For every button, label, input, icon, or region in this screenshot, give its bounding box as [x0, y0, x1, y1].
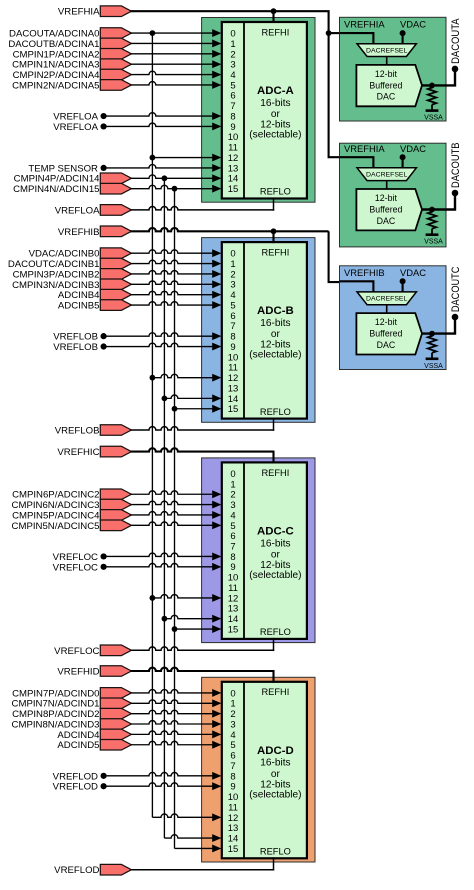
svg-text:13: 13 [228, 823, 239, 834]
ground VSSA (DAC-C) [424, 353, 443, 370]
wire VREFLOD ch8 to channel arrow [104, 772, 222, 780]
pin VREFLOB (REFLO) [55, 425, 132, 437]
svg-text:DACOUTB: DACOUTB [450, 143, 462, 189]
svg-text:DAC: DAC [377, 340, 396, 350]
pin CMPIN3P/ADCINB2 [13, 269, 132, 281]
svg-text:DACOUTB/ADCINA1: DACOUTB/ADCINA1 [8, 39, 99, 50]
node VDAC label (DAC-B) [400, 143, 426, 154]
ground VSSA (DAC-B) [424, 229, 443, 246]
DAC core 12-bit Buffered DAC (DAC-C) [356, 313, 422, 354]
pin ADCINB4 [58, 289, 131, 301]
svg-text:3: 3 [230, 280, 235, 291]
wire ADCIND5 to channel arrow [130, 741, 221, 749]
ADC-D name and description [249, 745, 301, 801]
svg-text:12-bit: 12-bit [375, 193, 398, 203]
svg-text:VREFLOD: VREFLOD [53, 782, 98, 793]
svg-text:CMPIN5P/ADCINC4: CMPIN5P/ADCINC4 [12, 510, 100, 521]
ADC-D inner box [222, 682, 307, 859]
pin CMPIN8N/ADCIND3 [12, 719, 132, 731]
svg-text:7: 7 [230, 101, 235, 112]
terminal VREFLOB ch9 [53, 342, 106, 353]
svg-text:4: 4 [230, 730, 235, 741]
pin CMPIN7N/ADCIND1 [12, 698, 132, 710]
pin CMPIN1P/ADCINA2 [13, 49, 132, 61]
svg-text:10: 10 [228, 132, 239, 143]
wire VREFLOB to ADC-B REFLO [130, 418, 274, 431]
svg-text:14: 14 [228, 174, 239, 185]
svg-text:11: 11 [228, 143, 238, 154]
wire CMPIN3P/ADCINB2 to channel arrow [130, 270, 221, 278]
svg-text:CMPIN8P/ADCIND2: CMPIN8P/ADCIND2 [12, 709, 99, 720]
svg-text:REFHI: REFHI [261, 248, 289, 258]
wire VREFLOA ch9 to channel arrow [104, 122, 222, 130]
svg-text:VDAC: VDAC [400, 19, 426, 30]
svg-text:9: 9 [230, 122, 235, 133]
DAC-B block [340, 143, 447, 247]
svg-text:7: 7 [230, 321, 235, 332]
svg-text:DACOUTC/ADCINB1: DACOUTC/ADCINB1 [8, 259, 100, 270]
svg-text:VREFLOD: VREFLOD [53, 771, 98, 782]
ADC-C inner box [222, 462, 307, 639]
wire VREFLOB ch9 to channel arrow [104, 343, 222, 351]
svg-text:10: 10 [228, 792, 239, 803]
svg-text:CMPIN1P/ADCINA2: CMPIN1P/ADCINA2 [13, 49, 100, 60]
svg-text:9: 9 [230, 782, 235, 793]
wire CMPIN7P/ADCIND0 to channel arrow [130, 689, 221, 697]
svg-text:CMPIN6P/ADCINC2: CMPIN6P/ADCINC2 [12, 490, 99, 501]
ADC-B channel numbers 0-15 [228, 249, 239, 416]
svg-text:7: 7 [230, 542, 235, 553]
svg-text:15: 15 [228, 404, 239, 415]
terminal VREFLOA ch9 [53, 122, 106, 133]
svg-text:Buffered: Buffered [369, 329, 402, 339]
svg-text:16-bits: 16-bits [260, 98, 290, 109]
junction DACOUTA/ADCINA0 bus tap [150, 30, 156, 36]
svg-text:0: 0 [230, 469, 235, 480]
wire VREFHIB net (to ADC-B REFHI and DAC-C) [130, 228, 328, 231]
terminal TEMP SENSOR [28, 163, 106, 174]
svg-text:14: 14 [228, 394, 239, 405]
wire ADCD ch15 from bus [175, 845, 222, 853]
svg-text:CMPIN3P/ADCINB2: CMPIN3P/ADCINB2 [13, 269, 100, 280]
svg-text:VREFLOC: VREFLOC [54, 646, 99, 657]
terminal VREFLOA ch8 [53, 112, 106, 123]
mux DACREFSEL (DAC-A) [357, 44, 416, 57]
svg-text:3: 3 [230, 719, 235, 730]
wire DACOUTC/ADCINB1 to channel arrow [130, 260, 221, 268]
ADC-A inner box [222, 22, 307, 199]
svg-text:12-bit: 12-bit [375, 317, 398, 327]
svg-text:13: 13 [228, 604, 239, 615]
pin ADCIND4 [57, 729, 131, 741]
ADC-B inner box [222, 242, 307, 419]
wire VREFLOA to ADC-A REFLO [130, 198, 274, 211]
svg-text:1: 1 [230, 479, 235, 490]
terminal VDAC (DAC-C) [400, 278, 406, 292]
terminal VREFLOC ch9 [53, 562, 107, 573]
svg-text:16-bits: 16-bits [260, 538, 290, 549]
terminal VDAC (DAC-A) [400, 30, 406, 44]
svg-text:VREFHID: VREFHID [57, 667, 99, 678]
svg-text:15: 15 [228, 184, 239, 195]
svg-text:VREFHIA: VREFHIA [58, 7, 100, 18]
svg-text:11: 11 [228, 802, 238, 813]
svg-text:VREFLOC: VREFLOC [53, 552, 98, 563]
svg-text:VDAC: VDAC [400, 267, 426, 278]
pin VREFHIB [58, 226, 131, 238]
svg-text:REFLO: REFLO [260, 847, 291, 857]
junction DAC output node (DAC-C) [429, 331, 435, 337]
svg-text:6: 6 [230, 751, 235, 762]
wire DAC output to DACOUTA [422, 69, 455, 86]
svg-text:ADCINB4: ADCINB4 [58, 290, 100, 301]
svg-text:VREFLOA: VREFLOA [53, 112, 98, 123]
pin DACOUTB/ADCINA1 [8, 38, 131, 50]
svg-text:DACREFSEL: DACREFSEL [366, 172, 408, 179]
svg-text:6: 6 [230, 311, 235, 322]
ADC-D REFLO label [260, 847, 291, 857]
svg-text:4: 4 [230, 70, 235, 81]
terminal VREFLOD ch9 [53, 782, 107, 793]
wire DAC output to DACOUTC [422, 317, 455, 334]
svg-text:CMPIN2P/ADCINA4: CMPIN2P/ADCINA4 [13, 70, 101, 81]
wire CMPIN8N/ADCIND3 to channel arrow [130, 720, 221, 728]
svg-text:VREFHIC: VREFHIC [57, 447, 99, 458]
pin CMPIN4P/ADCIN14 [14, 173, 132, 185]
svg-text:VSSA: VSSA [424, 115, 443, 122]
wire DAC output to DACOUTB [422, 193, 455, 210]
svg-text:or: or [271, 329, 281, 340]
svg-text:11: 11 [228, 363, 238, 374]
pin CMPIN7P/ADCIND0 [12, 688, 131, 700]
wire VREFLOB ch8 to channel arrow [104, 332, 222, 340]
svg-text:(selectable): (selectable) [249, 570, 301, 581]
svg-text:CMPIN2N/ADCINA5: CMPIN2N/ADCINA5 [12, 80, 99, 91]
svg-text:CMPIN4N/ADCIN15: CMPIN4N/ADCIN15 [13, 184, 99, 195]
svg-text:or: or [271, 549, 281, 560]
svg-text:16-bits: 16-bits [260, 318, 290, 329]
svg-text:ADC-B: ADC-B [257, 305, 294, 317]
node DACOUTA terminal [450, 18, 462, 72]
node VDAC label (DAC-C) [400, 267, 426, 278]
ADC-B REFHI label [261, 248, 289, 258]
svg-text:6: 6 [230, 531, 235, 542]
pin CMPIN4N/ADCIN15 [13, 183, 131, 195]
wire CMPIN5N/ADCINC5 to channel arrow [130, 521, 221, 529]
ADC-C channel numbers 0-15 [228, 469, 239, 636]
pin CMPIN5P/ADCINC4 [12, 510, 131, 522]
wire ADCD ch14 from bus [164, 834, 221, 842]
svg-text:REFLO: REFLO [260, 627, 291, 637]
terminal VDAC (DAC-B) [400, 154, 406, 168]
pin CMPIN6N/ADCINC3 [12, 499, 132, 511]
svg-text:(selectable): (selectable) [249, 789, 301, 800]
svg-text:ADC-C: ADC-C [257, 525, 294, 537]
wire ADCC ch15 from bus [172, 625, 222, 633]
ADC-A REFHI label [261, 27, 289, 37]
pin ADCIND5 [57, 739, 131, 751]
svg-text:ADC-D: ADC-D [257, 745, 294, 757]
wire VREFLOC ch8 to channel arrow [104, 553, 222, 561]
svg-text:CMPIN7N/ADCIND1: CMPIN7N/ADCIND1 [12, 699, 100, 710]
wire VREFHIA into DACREFSEL mux [340, 33, 374, 44]
ADC-C REFHI label [261, 468, 289, 478]
wire CMPIN6N/ADCINC3 to channel arrow [130, 501, 221, 509]
ADC-C name and description [249, 525, 301, 581]
wire ADCB ch15 from bus [172, 405, 222, 413]
svg-text:ADC-A: ADC-A [257, 85, 294, 97]
svg-text:DAC: DAC [377, 216, 396, 226]
ADC-A channel numbers 0-15 [228, 29, 239, 196]
svg-text:DACREFSEL: DACREFSEL [366, 48, 408, 55]
svg-text:4: 4 [230, 290, 235, 301]
wire CMPIN3N/ADCINB3 to channel arrow [130, 280, 221, 288]
svg-text:Buffered: Buffered [369, 81, 402, 91]
ADC-D outer block [202, 677, 315, 862]
wire mux output to DAC core [386, 57, 388, 65]
wire CMPIN6P/ADCINC2 to channel arrow [130, 490, 221, 498]
pin CMPIN8P/ADCIND2 [12, 708, 131, 720]
svg-text:10: 10 [228, 573, 239, 584]
wire ADCB ch12 from bus [150, 374, 222, 382]
wire mux output to DAC core [386, 181, 388, 189]
svg-text:VREFLOA: VREFLOA [53, 122, 98, 133]
junction CMPIN4N/ADCIN15 bus tap [172, 186, 178, 192]
wire DACOUTB/ADCINA1 to channel arrow [130, 40, 221, 48]
wire CMPIN8P/ADCIND2 to channel arrow [130, 710, 221, 718]
svg-text:VREFHIB: VREFHIB [344, 267, 385, 278]
svg-text:9: 9 [230, 342, 235, 353]
bus CMPIN4N/ADCIN15 to ch15 (vertical) [174, 189, 176, 849]
node DACOUTC terminal [450, 267, 462, 321]
wire TEMP SENSOR to channel arrow [104, 164, 222, 172]
svg-text:6: 6 [230, 91, 235, 102]
node VREFHIB label (DAC-C) [344, 267, 385, 278]
terminal VREFLOB ch8 [53, 332, 106, 343]
svg-text:REFHI: REFHI [261, 27, 289, 37]
svg-text:0: 0 [230, 249, 235, 260]
wire ADCINB4 to channel arrow [130, 291, 221, 299]
wire REFHI stub ADC-A [271, 8, 277, 23]
svg-text:13: 13 [228, 163, 239, 174]
node VDAC label (DAC-A) [400, 19, 426, 30]
svg-text:VREFLOC: VREFLOC [53, 562, 98, 573]
svg-text:ADCINB5: ADCINB5 [58, 301, 100, 312]
svg-text:1: 1 [230, 699, 235, 710]
wire REFHI stub ADC-B [271, 228, 277, 243]
svg-text:11: 11 [228, 583, 238, 594]
pin VREFHID [57, 666, 131, 678]
svg-text:DACOUTC: DACOUTC [450, 267, 462, 313]
svg-text:3: 3 [230, 60, 235, 71]
mux DACREFSEL (DAC-B) [357, 168, 416, 181]
ADC-B REFLO label [260, 407, 291, 417]
wire VREFHID to ADC-D REFHI [130, 668, 273, 683]
terminal VREFLOC ch8 [53, 552, 107, 563]
svg-text:(selectable): (selectable) [249, 350, 301, 361]
ADC-D channel numbers 0-15 [228, 688, 239, 855]
node VREFHIA label (DAC-A) [344, 19, 385, 30]
node DACOUTB terminal [450, 143, 462, 197]
svg-text:0: 0 [230, 29, 235, 40]
wire VREFHIB drop to DAC-C [329, 231, 342, 282]
svg-text:14: 14 [228, 834, 239, 845]
wire VREFLOC ch9 to channel arrow [104, 563, 222, 571]
svg-text:VREFLOB: VREFLOB [53, 342, 98, 353]
wire VREFHIA into DACREFSEL mux [340, 157, 374, 168]
wire VREFHIC to ADC-C REFHI [130, 448, 273, 463]
wire VREFLOD to ADC-D REFLO [130, 857, 274, 870]
svg-text:16-bits: 16-bits [260, 758, 290, 769]
junction CMPIN4P/ADCIN14 bus tap [162, 175, 168, 181]
pin CMPIN1N/ADCINA3 [12, 59, 131, 71]
wire ADCC ch14 from bus [162, 615, 222, 623]
svg-text:VSSA: VSSA [424, 363, 443, 370]
svg-text:15: 15 [228, 625, 239, 636]
junction DAC output node (DAC-B) [429, 207, 435, 213]
svg-text:CMPIN5N/ADCINC5: CMPIN5N/ADCINC5 [12, 521, 100, 532]
svg-text:REFHI: REFHI [261, 468, 289, 478]
wire ADCA ch12 from bus [150, 154, 222, 162]
pin CMPIN2P/ADCINA4 [13, 69, 132, 81]
wire VREFHIA net (top rail to DAC-A/B) [130, 11, 341, 157]
wire ADCIND4 to channel arrow [130, 730, 221, 738]
svg-text:ADCIND4: ADCIND4 [57, 730, 100, 741]
wire VREFHIB into DACREFSEL mux [340, 281, 374, 292]
DAC-A block [340, 17, 447, 121]
pin VREFLOD (REFLO) [54, 864, 131, 876]
wire CMPIN1N/ADCINA3 to channel arrow [130, 60, 221, 68]
svg-text:VDAC: VDAC [400, 143, 426, 154]
svg-text:13: 13 [228, 383, 239, 394]
svg-text:REFLO: REFLO [260, 407, 291, 417]
ground VSSA (DAC-A) [424, 105, 443, 122]
pin VREFHIA [58, 6, 131, 18]
svg-text:VSSA: VSSA [424, 239, 443, 246]
wire CMPIN2P/ADCINA4 to channel arrow [130, 71, 221, 79]
wire mux output to DAC core [386, 305, 388, 313]
ADC-B name and description [249, 305, 301, 361]
svg-text:0: 0 [230, 688, 235, 699]
wire CMPIN4P/ADCIN14 to channel arrow [130, 174, 221, 182]
wire ADCD ch12 from bus [152, 813, 221, 821]
svg-text:12-bit: 12-bit [375, 69, 398, 79]
svg-text:DACREFSEL: DACREFSEL [366, 296, 408, 303]
wire CMPIN1P/ADCINA2 to channel arrow [130, 50, 221, 58]
wire VREFLOD ch9 to channel arrow [104, 782, 222, 790]
DAC core 12-bit Buffered DAC (DAC-B) [356, 189, 422, 230]
wire CMPIN2N/ADCINA5 to channel arrow [130, 81, 221, 89]
svg-text:10: 10 [228, 352, 239, 363]
svg-text:REFLO: REFLO [260, 187, 291, 197]
mux DACREFSEL (DAC-C) [357, 292, 416, 305]
svg-text:14: 14 [228, 614, 239, 625]
wire VREFLOA ch8 to channel arrow [104, 112, 222, 120]
DAC-C block [340, 266, 447, 370]
pin DACOUTC/ADCINB1 [8, 258, 132, 270]
svg-text:or: or [271, 109, 281, 120]
wire VREFHIA branch into DAC-A [326, 30, 342, 36]
svg-text:(selectable): (selectable) [249, 130, 301, 141]
DAC core 12-bit Buffered DAC (DAC-A) [356, 65, 422, 106]
wire VDAC/ADCINB0 to channel arrow [130, 249, 221, 257]
svg-text:7: 7 [230, 761, 235, 772]
pin VREFLOA (REFLO) [55, 205, 132, 217]
ADC-A name and description [249, 85, 301, 141]
ADC-A REFLO label [260, 187, 291, 197]
svg-text:VREFLOA: VREFLOA [55, 205, 100, 216]
pin CMPIN2N/ADCINA5 [12, 80, 131, 92]
wire CMPIN5P/ADCINC4 to channel arrow [130, 511, 221, 519]
ADC-D REFHI label [261, 687, 289, 697]
svg-text:REFHI: REFHI [261, 687, 289, 697]
pin VREFLOC (REFLO) [54, 645, 131, 657]
ADC-A outer block [202, 18, 315, 203]
wire ADCB ch14 from bus [162, 394, 222, 402]
pin DACOUTA/ADCINA0 [9, 28, 131, 40]
wire CMPIN7N/ADCIND1 to channel arrow [130, 699, 221, 707]
svg-text:Buffered: Buffered [369, 205, 402, 215]
wire ADCC ch12 from bus [150, 594, 222, 602]
ADC-C REFLO label [260, 627, 291, 637]
pin CMPIN5N/ADCINC5 [12, 520, 132, 532]
wire ADCINB5 to channel arrow [130, 301, 221, 309]
bus DACOUTA/ADCINA0 to ch12 (vertical) [151, 33, 153, 817]
svg-text:3: 3 [230, 500, 235, 511]
svg-text:9: 9 [230, 562, 235, 573]
terminal VREFLOD ch8 [53, 771, 107, 782]
wire VREFLOC to ADC-C REFLO [130, 638, 274, 651]
svg-text:VREFHIA: VREFHIA [344, 19, 385, 30]
pin CMPIN6P/ADCINC2 [12, 489, 131, 501]
junction DAC output node (DAC-A) [429, 83, 435, 89]
pin CMPIN3N/ADCINB3 [12, 279, 131, 291]
svg-text:VREFHIB: VREFHIB [58, 227, 100, 238]
ADC-B outer block [202, 238, 315, 423]
svg-text:1: 1 [230, 259, 235, 270]
svg-text:VREFHIA: VREFHIA [344, 143, 385, 154]
svg-text:or: or [271, 769, 281, 780]
wire CMPIN4N/ADCIN15 to channel arrow [130, 185, 221, 193]
svg-text:DACOUTA: DACOUTA [450, 18, 462, 64]
svg-text:1: 1 [230, 39, 235, 50]
svg-text:VREFLOB: VREFLOB [53, 332, 98, 343]
node VREFHIA label (DAC-B) [344, 143, 385, 154]
resistor load (DAC-B) [428, 210, 436, 229]
svg-text:DAC: DAC [377, 92, 396, 102]
resistor load (DAC-A) [428, 85, 436, 104]
svg-text:4: 4 [230, 510, 235, 521]
wire DACOUTA/ADCINA0 to channel arrow [130, 29, 221, 37]
pin VREFHIC [57, 446, 131, 458]
resistor load (DAC-C) [428, 334, 436, 353]
pin VDAC/ADCINB0 [29, 248, 132, 260]
svg-text:ADCIND5: ADCIND5 [57, 740, 99, 751]
svg-text:15: 15 [228, 844, 239, 855]
ADC-C outer block [202, 458, 315, 643]
bus CMPIN4P/ADCIN14 to ch14 (vertical) [163, 178, 165, 838]
pin ADCINB5 [58, 300, 131, 312]
svg-text:VREFLOD: VREFLOD [54, 865, 99, 876]
svg-text:VREFLOB: VREFLOB [55, 426, 100, 437]
svg-text:CMPIN4P/ADCIN14: CMPIN4P/ADCIN14 [14, 174, 100, 185]
